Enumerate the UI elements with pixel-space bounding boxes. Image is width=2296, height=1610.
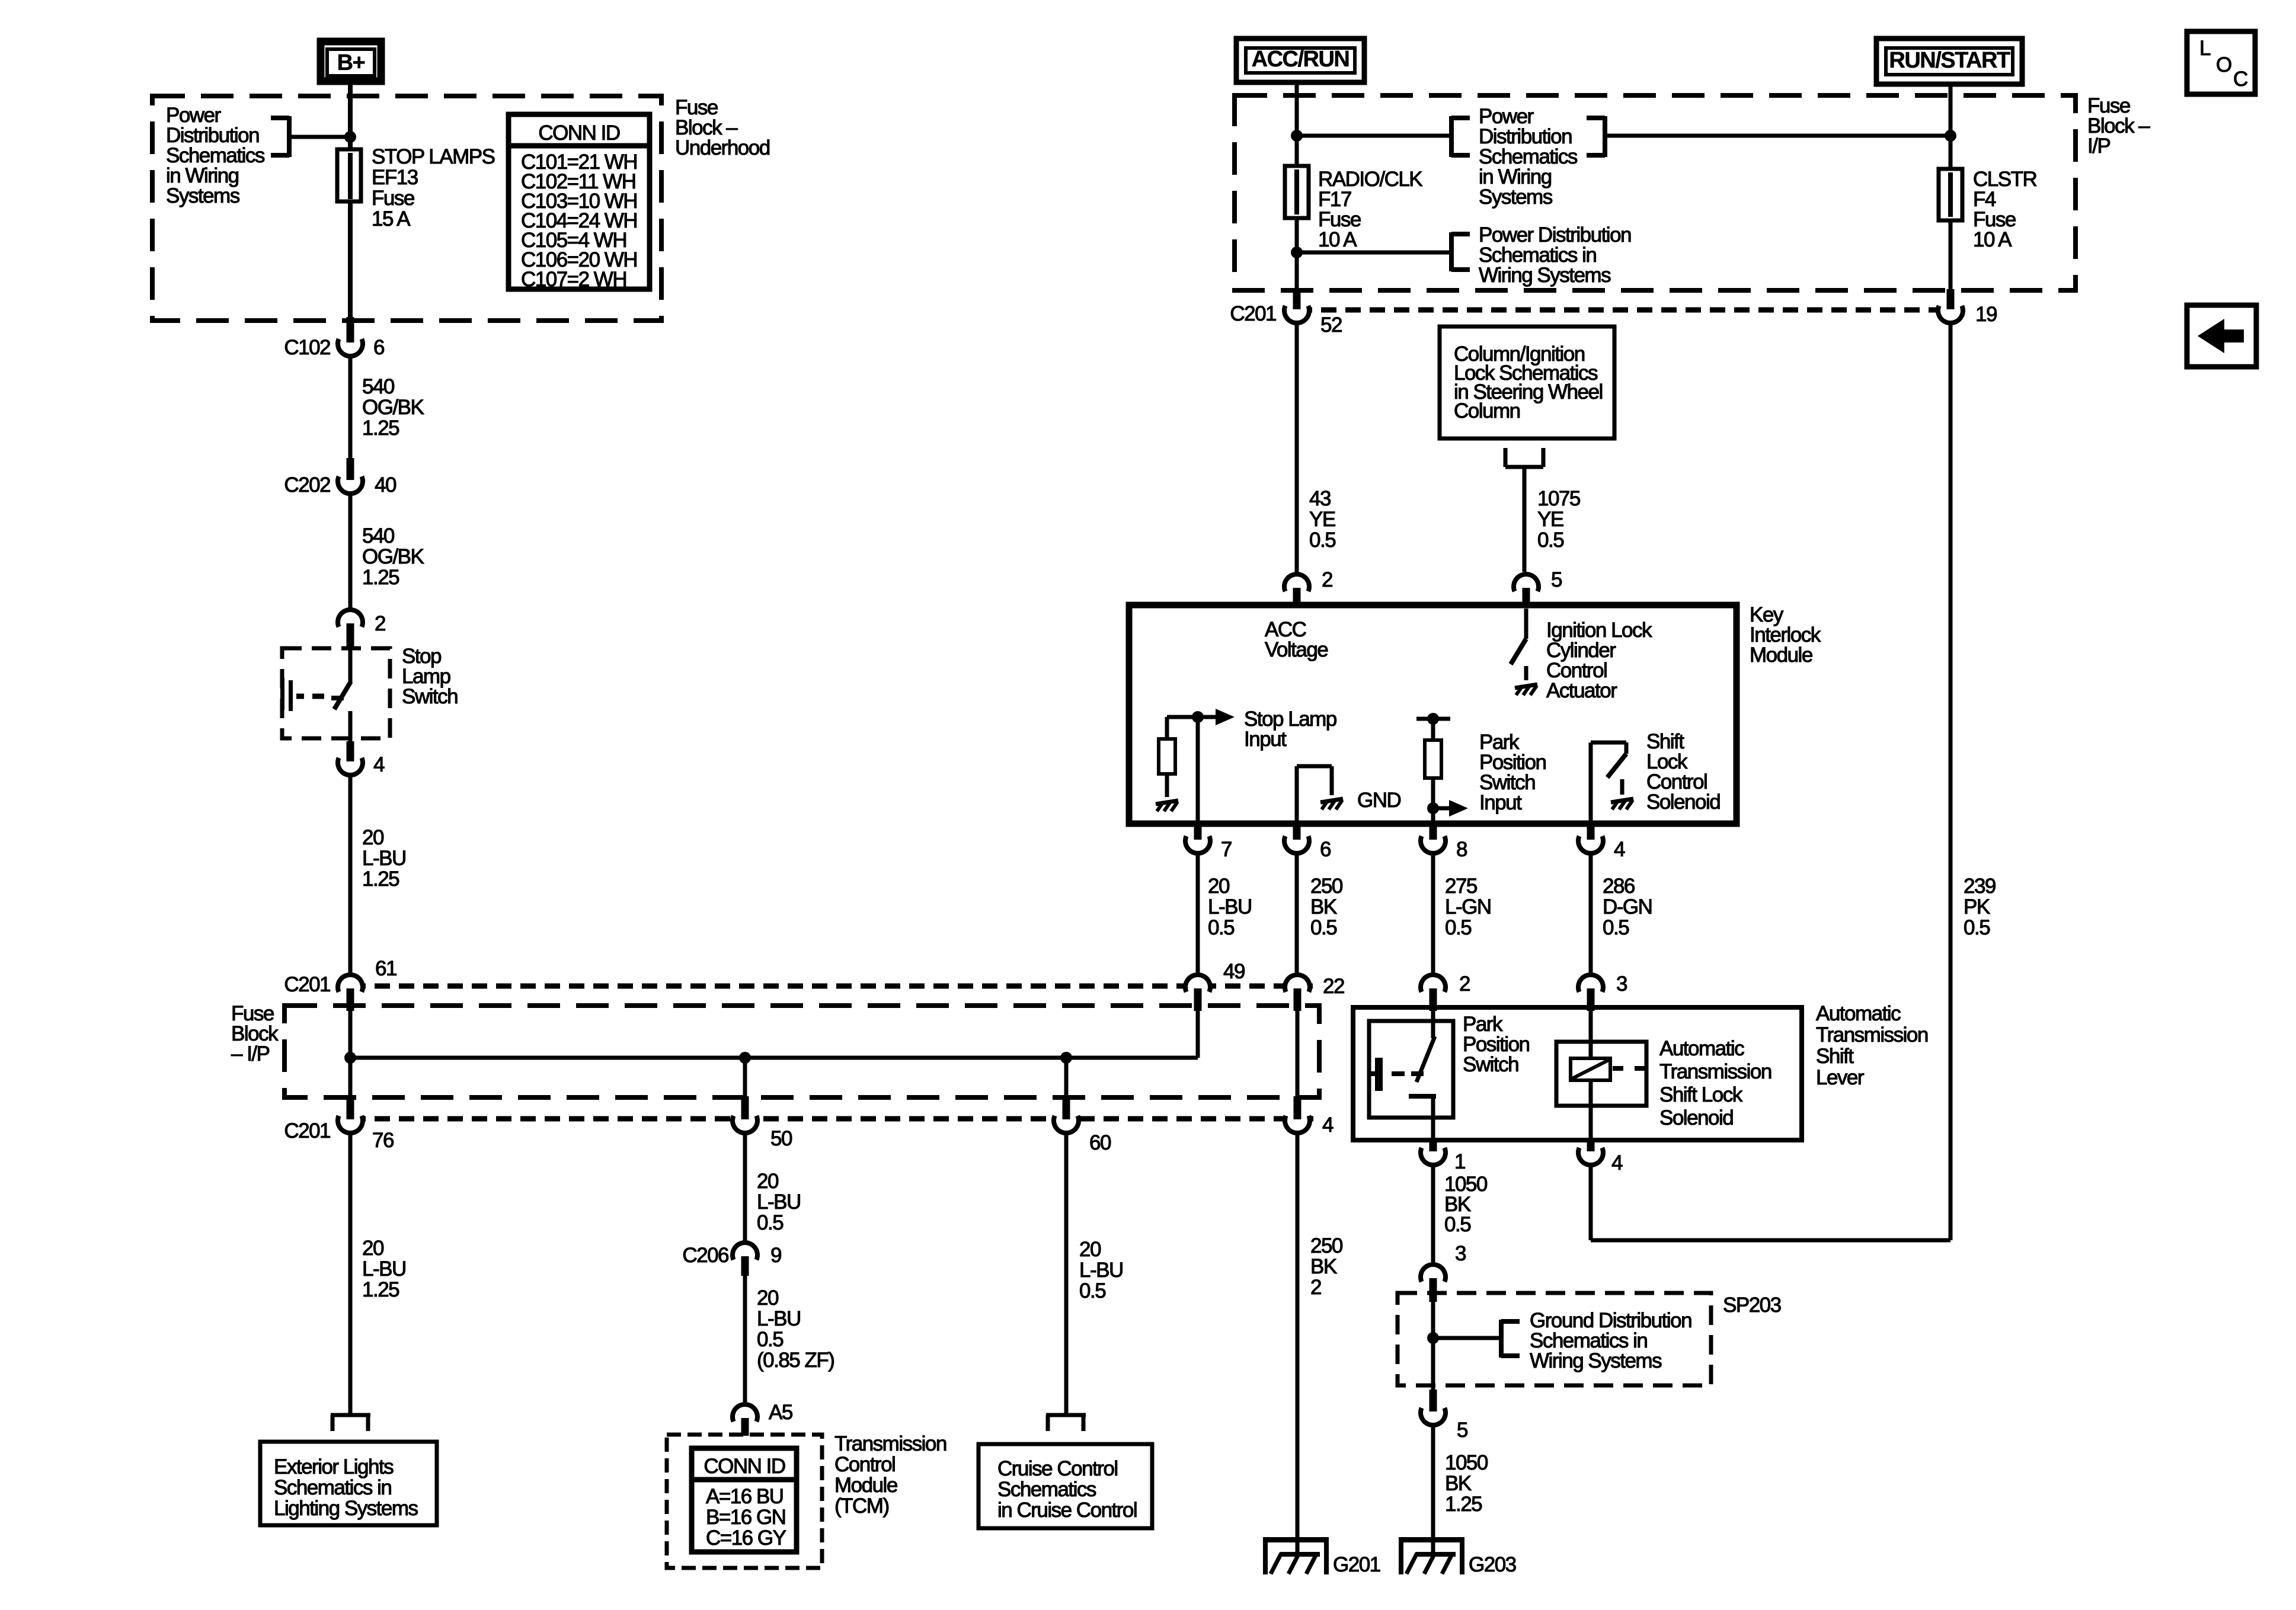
svg-text:275: 275 bbox=[1445, 875, 1477, 898]
svg-text:L-BU: L-BU bbox=[757, 1190, 801, 1214]
dotted connector line C201 (row 1) bbox=[350, 984, 1313, 989]
junction bbox=[1945, 130, 1956, 142]
connector 5 (module) bbox=[1515, 576, 1537, 597]
svg-text:Transmission: Transmission bbox=[834, 1432, 946, 1455]
svg-text:250: 250 bbox=[1310, 1234, 1343, 1257]
svg-text:Input: Input bbox=[1479, 791, 1522, 814]
svg-text:L-GN: L-GN bbox=[1445, 895, 1491, 918]
svg-text:20: 20 bbox=[362, 826, 384, 849]
svg-text:1075: 1075 bbox=[1537, 487, 1580, 510]
off-page bracket to cruise control bbox=[1046, 1413, 1086, 1417]
svg-text:10 A: 10 A bbox=[1318, 228, 1357, 251]
svg-text:L-BU: L-BU bbox=[362, 847, 406, 870]
power symbol B+ bbox=[321, 41, 381, 81]
connector C206 pin 9 bbox=[743, 1240, 747, 1243]
svg-text:GND: GND bbox=[1357, 789, 1401, 812]
svg-text:540: 540 bbox=[362, 375, 395, 398]
svg-text:Wiring Systems: Wiring Systems bbox=[1479, 264, 1611, 287]
svg-text:540: 540 bbox=[362, 524, 395, 548]
svg-text:OG/BK: OG/BK bbox=[362, 396, 424, 419]
svg-text:Module: Module bbox=[1750, 644, 1812, 667]
svg-text:0.5: 0.5 bbox=[1310, 916, 1336, 939]
svg-text:7: 7 bbox=[1221, 838, 1232, 861]
svg-text:0.5: 0.5 bbox=[1309, 529, 1335, 552]
junction bbox=[1427, 802, 1439, 814]
svg-text:4: 4 bbox=[1614, 838, 1625, 861]
svg-text:3: 3 bbox=[1455, 1242, 1466, 1265]
svg-text:0.5: 0.5 bbox=[1079, 1279, 1105, 1302]
svg-text:6: 6 bbox=[1320, 838, 1331, 861]
svg-text:A5: A5 bbox=[769, 1401, 792, 1424]
junction splice bbox=[1427, 1332, 1439, 1344]
svg-text:Schematics in: Schematics in bbox=[274, 1476, 391, 1499]
svg-text:4: 4 bbox=[373, 753, 385, 776]
svg-text:C202: C202 bbox=[284, 473, 330, 497]
shift lock control solenoid switch bbox=[1589, 742, 1593, 821]
connector pin 1 bbox=[1422, 1142, 1444, 1163]
CONN ID table (TCM) bbox=[692, 1448, 797, 1552]
svg-text:STOP LAMPS: STOP LAMPS bbox=[372, 145, 495, 168]
svg-text:1.25: 1.25 bbox=[1445, 1493, 1482, 1516]
connector A5 (TCM) bbox=[734, 1406, 756, 1427]
connector pin 19 bbox=[1940, 300, 1961, 321]
svg-text:Switch: Switch bbox=[402, 685, 458, 708]
svg-text:C107=2 WH: C107=2 WH bbox=[521, 268, 626, 291]
svg-text:EF13: EF13 bbox=[372, 166, 418, 189]
svg-text:Column: Column bbox=[1454, 399, 1520, 422]
svg-text:0.5: 0.5 bbox=[757, 1328, 783, 1351]
svg-text:1050: 1050 bbox=[1445, 1451, 1488, 1474]
svg-text:250: 250 bbox=[1310, 875, 1343, 898]
svg-text:0.5: 0.5 bbox=[1208, 916, 1234, 939]
svg-text:20: 20 bbox=[362, 1237, 384, 1260]
svg-text:ACC/RUN: ACC/RUN bbox=[1252, 47, 1350, 72]
svg-text:4: 4 bbox=[1322, 1113, 1334, 1137]
fuse RADIO/CLK F17 10A bbox=[1285, 166, 1309, 218]
svg-text:OG/BK: OG/BK bbox=[362, 545, 424, 568]
connector module pin 6 bbox=[1286, 830, 1307, 852]
svg-text:YE: YE bbox=[1537, 508, 1563, 531]
svg-text:O: O bbox=[2216, 53, 2231, 76]
power symbol RUN/START bbox=[1876, 39, 2022, 84]
stop lamp input resistor bbox=[1159, 739, 1175, 774]
svg-text:20: 20 bbox=[1208, 875, 1230, 898]
svg-text:15 A: 15 A bbox=[372, 207, 411, 231]
svg-text:1.25: 1.25 bbox=[362, 417, 399, 440]
fuse block underhood dashed box bbox=[152, 96, 661, 321]
svg-text:Control: Control bbox=[834, 1453, 895, 1476]
park position switch box bbox=[1369, 1021, 1453, 1118]
stop lamp switch blade bbox=[348, 649, 353, 682]
svg-text:C=16 GY: C=16 GY bbox=[706, 1526, 786, 1550]
svg-text:G201: G201 bbox=[1333, 1553, 1380, 1576]
svg-text:22: 22 bbox=[1323, 975, 1344, 998]
ground (stop lamp input) bbox=[1156, 801, 1178, 804]
CONN ID table (underhood) bbox=[509, 114, 650, 289]
connector pin 5 bbox=[1422, 1402, 1444, 1423]
svg-text:Systems: Systems bbox=[166, 184, 240, 207]
stop lamp input arrow bbox=[1198, 715, 1218, 719]
connector C201 pin 52 bbox=[1286, 300, 1307, 321]
automatic transmission shift lever box bbox=[1353, 1007, 1802, 1140]
svg-text:9: 9 bbox=[770, 1244, 781, 1267]
svg-text:10 A: 10 A bbox=[1973, 228, 2012, 251]
key interlock module box bbox=[1129, 605, 1737, 824]
svg-text:C: C bbox=[2233, 68, 2247, 91]
wire 22 to 4 bbox=[1296, 1011, 1300, 1096]
svg-text:239: 239 bbox=[1964, 875, 1996, 898]
connector pin 4 (row 3) bbox=[1287, 1110, 1308, 1131]
svg-text:Automatic: Automatic bbox=[1659, 1037, 1744, 1060]
column/ignition lock schematics box bbox=[1440, 327, 1614, 438]
junction bbox=[1192, 711, 1204, 723]
junction bbox=[1060, 1052, 1072, 1064]
svg-text:0.5: 0.5 bbox=[1444, 1213, 1470, 1236]
ground G201 bbox=[1263, 1537, 1329, 1542]
wire B+ down bbox=[348, 85, 353, 149]
svg-text:Voltage: Voltage bbox=[1265, 638, 1328, 661]
dotted connector line C201 (row 2) bbox=[1297, 308, 1957, 313]
svg-text:in Cruise Control: in Cruise Control bbox=[997, 1499, 1137, 1522]
svg-text:76: 76 bbox=[372, 1129, 394, 1152]
svg-text:C102: C102 bbox=[284, 336, 330, 359]
junction on rail bbox=[1427, 713, 1439, 725]
connector pin 3 (SP203) bbox=[1422, 1266, 1444, 1288]
svg-text:1: 1 bbox=[1454, 1150, 1465, 1173]
connector module pin 8 bbox=[1422, 830, 1444, 852]
svg-text:4: 4 bbox=[1611, 1151, 1623, 1174]
svg-text:0.5: 0.5 bbox=[1964, 916, 1990, 939]
svg-text:(0.85 ZF): (0.85 ZF) bbox=[757, 1349, 834, 1372]
svg-text:C201: C201 bbox=[284, 973, 330, 996]
connector pin 22 bbox=[1287, 977, 1308, 998]
wire to TCM bbox=[743, 1276, 747, 1402]
connector pin 50 bbox=[734, 1110, 756, 1131]
stop lamp switch dashed box bbox=[282, 648, 390, 738]
arrow box bbox=[2187, 305, 2256, 367]
connector 4 (below stop lamp switch) bbox=[340, 752, 361, 773]
svg-text:BK: BK bbox=[1310, 1255, 1337, 1278]
solenoid diagonal bbox=[1572, 1060, 1609, 1078]
svg-text:Systems: Systems bbox=[1479, 185, 1553, 209]
exterior lights schematics box bbox=[260, 1442, 437, 1525]
junction bbox=[1291, 247, 1303, 258]
junction bbox=[344, 1052, 356, 1064]
svg-text:Input: Input bbox=[1244, 728, 1287, 751]
svg-text:Switch: Switch bbox=[1463, 1053, 1518, 1076]
GND path bbox=[1295, 766, 1299, 821]
svg-text:20: 20 bbox=[757, 1286, 779, 1310]
bracket ref power distribution (lower) bbox=[1297, 251, 1451, 255]
fuse block I/P dashed box (left) bbox=[284, 1006, 1319, 1097]
junction bbox=[1291, 130, 1303, 142]
svg-text:Lighting Systems: Lighting Systems bbox=[274, 1497, 418, 1520]
svg-text:50: 50 bbox=[770, 1127, 792, 1150]
svg-text:0.5: 0.5 bbox=[1537, 529, 1563, 552]
svg-text:Underhood: Underhood bbox=[675, 136, 770, 159]
svg-text:20: 20 bbox=[757, 1170, 779, 1193]
svg-text:Exterior Lights: Exterior Lights bbox=[274, 1455, 394, 1478]
svg-text:BK: BK bbox=[1445, 1472, 1472, 1495]
power symbol ACC/RUN bbox=[1236, 39, 1364, 82]
svg-text:L-BU: L-BU bbox=[1079, 1259, 1123, 1282]
bracket ref power distribution (top) bbox=[1297, 134, 1451, 138]
svg-text:0.5: 0.5 bbox=[1603, 916, 1629, 939]
svg-text:YE: YE bbox=[1309, 508, 1335, 531]
ground GND bbox=[1320, 799, 1343, 802]
ignition lock cylinder control actuator switch bbox=[1524, 609, 1528, 639]
TCM dashed box bbox=[667, 1435, 822, 1568]
splice SP203 dashed box bbox=[1398, 1293, 1711, 1385]
svg-text:Automatic: Automatic bbox=[1816, 1002, 1901, 1025]
wire branch to bracket bbox=[289, 135, 350, 139]
svg-text:CONN ID: CONN ID bbox=[538, 121, 620, 145]
connector module pin 7 bbox=[1187, 830, 1208, 852]
svg-text:Actuator: Actuator bbox=[1546, 679, 1617, 702]
connector pin 60 bbox=[1056, 1110, 1077, 1131]
svg-text:BK: BK bbox=[1310, 895, 1337, 918]
svg-text:Lever: Lever bbox=[1816, 1066, 1865, 1089]
svg-text:L-BU: L-BU bbox=[1208, 895, 1252, 918]
svg-text:PK: PK bbox=[1964, 895, 1990, 918]
svg-text:1.25: 1.25 bbox=[362, 868, 399, 891]
fuse CLSTR F4 10A bbox=[1939, 169, 1962, 220]
svg-text:6: 6 bbox=[373, 336, 384, 359]
connector C201 pin 61 bbox=[348, 966, 353, 975]
svg-text:Cruise Control: Cruise Control bbox=[997, 1457, 1118, 1480]
LOC box bbox=[2187, 31, 2255, 94]
svg-text:2: 2 bbox=[375, 612, 385, 635]
wire to pin 7 bbox=[1196, 717, 1200, 821]
svg-text:1.25: 1.25 bbox=[362, 1278, 399, 1301]
ground G203 bbox=[1399, 1537, 1464, 1542]
svg-text:40: 40 bbox=[375, 473, 396, 497]
connector C201 pin 76 bbox=[340, 1110, 361, 1131]
svg-text:3: 3 bbox=[1616, 972, 1627, 996]
connector C202 pin 40 bbox=[340, 470, 361, 492]
connector pin 4 (solenoid) bbox=[1580, 1142, 1601, 1163]
wire RUN/START down bbox=[1949, 84, 1953, 169]
connector 2 (park position switch) bbox=[1422, 977, 1444, 998]
svg-text:L-BU: L-BU bbox=[362, 1257, 406, 1281]
svg-text:43: 43 bbox=[1309, 487, 1331, 510]
svg-text:(TCM): (TCM) bbox=[834, 1494, 889, 1518]
svg-text:G203: G203 bbox=[1469, 1553, 1516, 1576]
wire 239 PK elbow bbox=[1591, 1238, 1950, 1243]
svg-text:8: 8 bbox=[1456, 838, 1467, 861]
wire to RUN/START branch bbox=[1605, 134, 1950, 138]
connector 2 (stop lamp switch) bbox=[348, 602, 353, 610]
connector pin 49 bbox=[1187, 977, 1208, 998]
svg-text:C201: C201 bbox=[284, 1119, 330, 1142]
automatic transmission shift lock solenoid box bbox=[1556, 1042, 1646, 1106]
wire ACC/RUN down bbox=[1295, 82, 1299, 166]
svg-text:B+: B+ bbox=[337, 50, 365, 75]
svg-text:C206: C206 bbox=[682, 1244, 728, 1267]
svg-text:19: 19 bbox=[1975, 303, 1997, 326]
svg-text:61: 61 bbox=[375, 957, 396, 980]
park position switch input arrow bbox=[1433, 806, 1452, 811]
dotted connector line C201 (row 3) bbox=[350, 1116, 1319, 1122]
svg-text:L-BU: L-BU bbox=[757, 1307, 801, 1330]
off-page bracket to exterior lights bbox=[331, 1413, 370, 1417]
svg-text:D-GN: D-GN bbox=[1603, 895, 1652, 918]
bus wire inside fuse block bbox=[348, 1011, 353, 1096]
svg-text:Module: Module bbox=[834, 1474, 897, 1497]
svg-text:Solenoid: Solenoid bbox=[1646, 790, 1720, 814]
bracket ref power distribution (left) bbox=[287, 116, 292, 157]
park position switch input resistor bbox=[1416, 717, 1450, 721]
svg-text:2: 2 bbox=[1459, 972, 1470, 996]
wire to connector 5 bbox=[1523, 467, 1527, 572]
svg-text:52: 52 bbox=[1320, 313, 1342, 337]
off-page bracket below column box bbox=[1504, 448, 1508, 467]
switch blade bbox=[1416, 1036, 1435, 1082]
connector 2 (module) bbox=[1286, 576, 1307, 597]
svg-text:SP203: SP203 bbox=[1723, 1294, 1781, 1317]
svg-text:Schematics: Schematics bbox=[997, 1478, 1096, 1501]
junction bbox=[739, 1052, 751, 1064]
svg-text:Shift Lock: Shift Lock bbox=[1659, 1083, 1743, 1106]
svg-text:I/P: I/P bbox=[2087, 135, 2110, 158]
svg-text:2: 2 bbox=[1310, 1276, 1321, 1299]
svg-text:A=16 BU: A=16 BU bbox=[706, 1485, 784, 1508]
svg-text:B=16 GN: B=16 GN bbox=[706, 1506, 785, 1529]
connector module pin 4 bbox=[1580, 830, 1601, 852]
fuse EF13 STOP LAMPS 15A bbox=[337, 149, 361, 201]
svg-text:5: 5 bbox=[1457, 1419, 1467, 1442]
svg-text:Shift: Shift bbox=[1816, 1045, 1854, 1068]
svg-text:0.5: 0.5 bbox=[757, 1211, 783, 1234]
svg-text:Wiring Systems: Wiring Systems bbox=[1530, 1349, 1662, 1372]
svg-text:Fuse: Fuse bbox=[372, 187, 414, 210]
svg-text:C201: C201 bbox=[1230, 302, 1276, 325]
bracket right bbox=[1603, 116, 1607, 157]
svg-text:RUN/START: RUN/START bbox=[1889, 48, 2010, 73]
svg-text:L: L bbox=[2199, 37, 2211, 60]
junction bbox=[344, 131, 356, 143]
connector 3 (shift lock solenoid) bbox=[1580, 977, 1601, 998]
svg-text:Transmission: Transmission bbox=[1816, 1023, 1928, 1046]
svg-text:– I/P: – I/P bbox=[231, 1042, 270, 1065]
svg-text:60: 60 bbox=[1089, 1131, 1111, 1154]
connector C102 pin 6 bbox=[340, 333, 361, 354]
svg-text:20: 20 bbox=[1079, 1238, 1101, 1261]
svg-text:5: 5 bbox=[1551, 568, 1562, 591]
stop lamp switch contacts bbox=[280, 678, 284, 710]
svg-text:Transmission: Transmission bbox=[1659, 1060, 1771, 1083]
svg-text:286: 286 bbox=[1603, 875, 1635, 898]
cruise control schematics box bbox=[978, 1444, 1152, 1528]
svg-text:1.25: 1.25 bbox=[362, 566, 399, 589]
svg-text:0.5: 0.5 bbox=[1445, 916, 1471, 939]
svg-text:Solenoid: Solenoid bbox=[1659, 1106, 1733, 1129]
fuse block I/P dashed box (top right) bbox=[1235, 95, 2076, 290]
svg-text:CONN ID: CONN ID bbox=[703, 1455, 785, 1478]
svg-text:49: 49 bbox=[1223, 960, 1245, 983]
svg-text:2: 2 bbox=[1322, 568, 1332, 591]
